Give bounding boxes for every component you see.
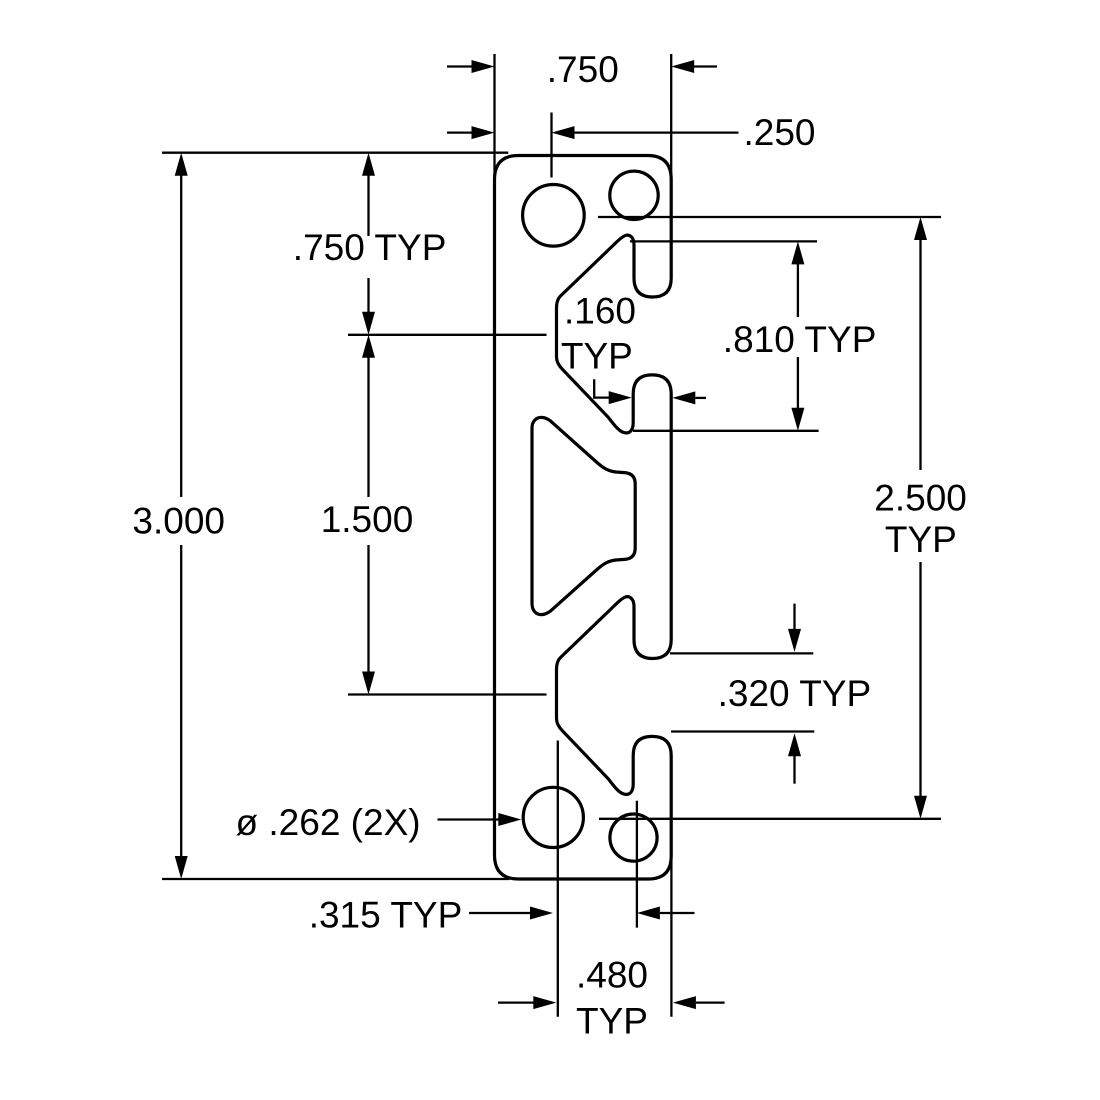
dim .750 top width bbox=[447, 49, 717, 177]
svg-text:ø .262 (2X): ø .262 (2X) bbox=[236, 802, 421, 843]
extension right edge bottom bbox=[670, 861, 672, 1017]
svg-text:TYP: TYP bbox=[561, 336, 633, 377]
svg-text:.250: .250 bbox=[744, 112, 816, 153]
svg-text:.160: .160 bbox=[564, 291, 636, 332]
extrusion profile outline bbox=[495, 156, 672, 880]
svg-text:TYP: TYP bbox=[576, 1000, 648, 1041]
dim 1.500 bbox=[321, 335, 547, 695]
dim .320 TYP bbox=[670, 604, 871, 784]
dim 3.000 bbox=[132, 153, 509, 879]
dim .315 TYP bbox=[309, 895, 695, 936]
dim .480 TYP bbox=[498, 954, 725, 1041]
svg-text:TYP: TYP bbox=[885, 519, 957, 560]
svg-text:.810 TYP: .810 TYP bbox=[723, 319, 877, 360]
svg-text:2.500: 2.500 bbox=[874, 477, 967, 518]
svg-text:.750 TYP: .750 TYP bbox=[293, 227, 447, 268]
svg-text:.320 TYP: .320 TYP bbox=[718, 673, 872, 714]
dim .810 TYP bbox=[630, 241, 876, 430]
hole bottom-right bbox=[610, 814, 657, 861]
leader o .262 (2X) bbox=[236, 802, 522, 843]
dim .160 TYP bbox=[561, 291, 706, 405]
svg-text:1.500: 1.500 bbox=[321, 499, 414, 540]
hole top-right bbox=[610, 171, 658, 219]
hole top-left o.262 bbox=[523, 185, 585, 247]
center cavity bbox=[532, 417, 635, 614]
svg-text:.750: .750 bbox=[547, 49, 619, 90]
centerline bottom-right hole bbox=[636, 801, 638, 928]
hole bottom-left o.262 bbox=[523, 787, 583, 847]
svg-text:.480: .480 bbox=[576, 954, 648, 995]
dim 2.500 TYP bbox=[598, 217, 967, 819]
centerline bottom-left hole bbox=[557, 741, 559, 1017]
dim .750 TYP bbox=[293, 153, 547, 335]
svg-text:.315 TYP: .315 TYP bbox=[309, 895, 463, 936]
dim .250 bbox=[447, 112, 816, 177]
svg-text:3.000: 3.000 bbox=[132, 501, 225, 542]
